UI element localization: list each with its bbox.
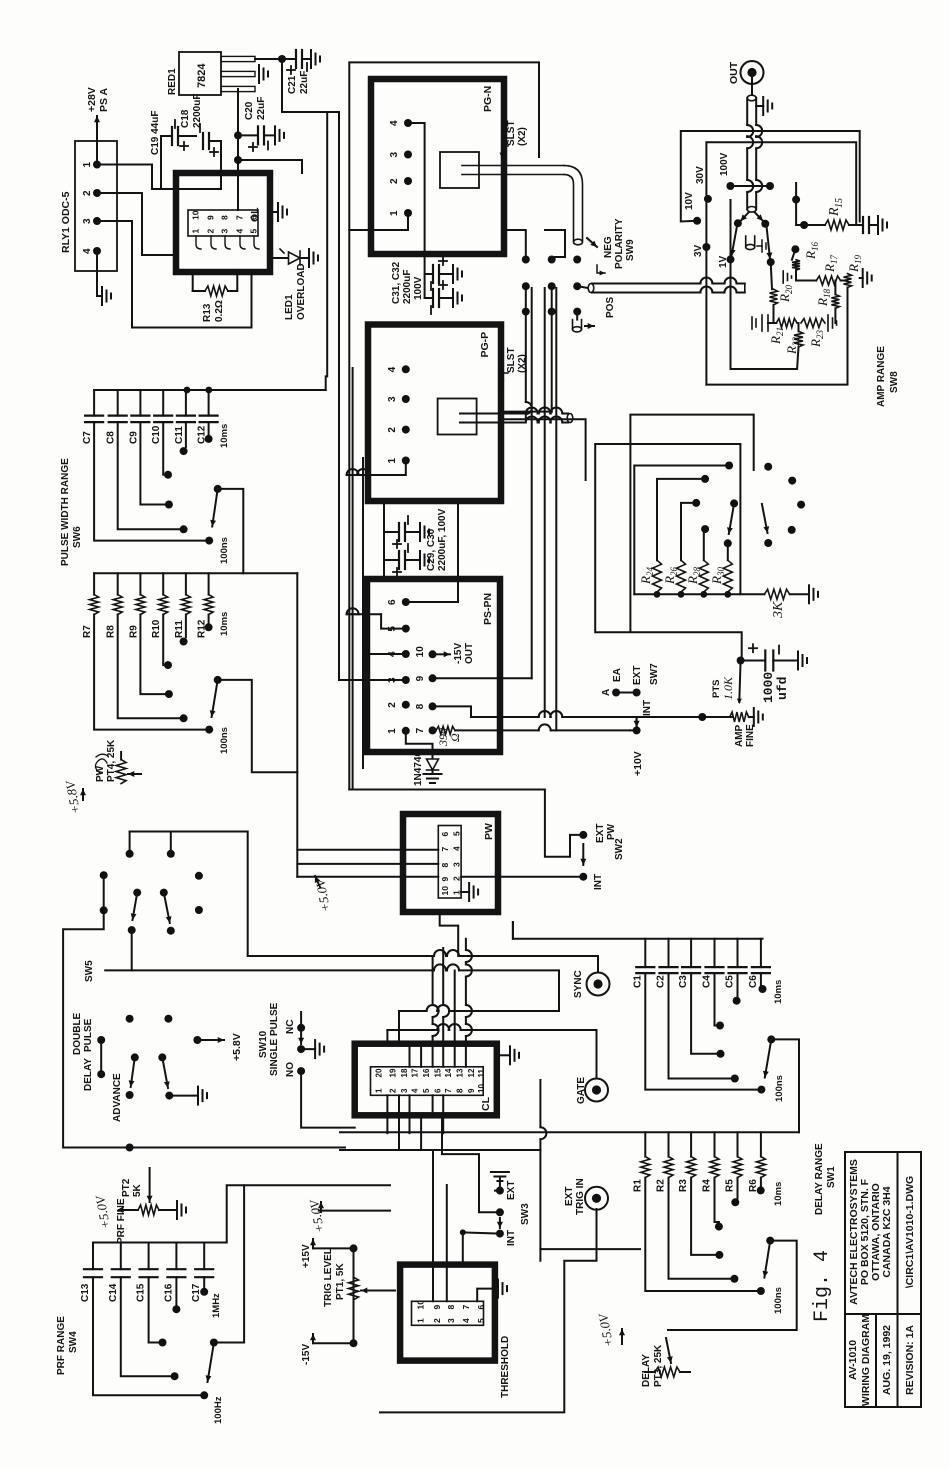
wire PS-PN pin4 riser: [363, 653, 406, 655]
wire CL pin stub left: [386, 1095, 388, 1115]
capacitor C21 22uF: [296, 50, 302, 68]
contact C8: [180, 525, 188, 533]
cable SW9 bar: [592, 278, 745, 284]
wire EXT TRIG route: [380, 1209, 597, 1412]
resistor R18: [831, 294, 839, 308]
wire C7 contact: [94, 422, 205, 541]
capacitor C16: [167, 1269, 185, 1277]
svg-text:+28V: +28V: [86, 87, 98, 112]
svg-text:1: 1: [387, 458, 398, 464]
resistor R1: [641, 1157, 650, 1178]
ground at C30: [420, 551, 429, 569]
contact arm C bank: [214, 485, 222, 493]
contact SW9: [548, 256, 556, 264]
capacitor C6: [752, 967, 770, 973]
svg-text:PW: PW: [483, 823, 495, 840]
wire SW5 link b: [130, 831, 171, 833]
wire 3V riser: [705, 142, 707, 384]
arrow -15V OUT: [436, 651, 450, 657]
pin 1 PS-PN: [402, 727, 410, 735]
resistor R26: [677, 560, 686, 592]
wire rail g2: [399, 1005, 559, 1011]
svg-text:\CIRC1\AV1010-1.DWG: \CIRC1\AV1010-1.DWG: [904, 1176, 916, 1288]
wire bus to C11: [185, 390, 187, 416]
contact arm SW1: [767, 1035, 775, 1043]
svg-text:AMP RANGE: AMP RANGE: [876, 346, 887, 407]
contact R24: [701, 475, 709, 483]
wire R8 contact: [118, 615, 180, 719]
svg-text:PT3, 25K: PT3, 25K: [653, 1344, 664, 1387]
wire C1 to contact: [645, 973, 757, 1090]
cable SW9 bar: [592, 287, 745, 293]
svg-text:AV-1010: AV-1010: [847, 1340, 859, 1380]
ground at OUT tube: [763, 97, 772, 115]
arrow PT2 +5V: [117, 1207, 123, 1213]
wire C12 contact: [208, 422, 210, 435]
junction R15: [800, 221, 808, 229]
pin 8 PS-PN: [429, 702, 437, 710]
minus of C29: [407, 516, 409, 524]
wire 100V pair: [734, 185, 766, 187]
cable end PG-P: [567, 414, 573, 423]
arrow SLST PG-P: [502, 373, 508, 385]
svg-text:THRESHOLD: THRESHOLD: [500, 1336, 511, 1398]
arrow +15V: [310, 1239, 316, 1248]
wire NC stub: [300, 1012, 302, 1028]
junction R30: [724, 591, 731, 598]
wire R28 to contact: [703, 529, 705, 560]
arrow wiper PT2: [147, 1168, 153, 1202]
svg-text:AMP: AMP: [734, 724, 745, 747]
wire OL to LED1: [270, 257, 288, 259]
svg-text:100ns: 100ns: [774, 1075, 785, 1102]
wire resistor bus: [634, 593, 764, 595]
svg-text:2200uF: 2200uF: [192, 94, 203, 128]
minus of C30: [407, 544, 409, 552]
ground at C32: [453, 289, 462, 307]
wire arm SW1 out: [771, 1039, 799, 1132]
wire R4 contact: [715, 1178, 719, 1223]
wire CL pin stub left: [398, 1095, 400, 1115]
wire PS-PN pin9: [433, 677, 532, 679]
connector EXT TRIG IN: [585, 1187, 608, 1210]
wire SW9 row1: [526, 286, 532, 419]
svg-text:2200uF, 100V: 2200uF, 100V: [437, 508, 448, 571]
ground at RLY1 pin4: [102, 287, 111, 305]
wire -15V: [313, 1342, 354, 1344]
wire SW6 to PW DIP: [297, 863, 438, 865]
svg-text:9: 9: [440, 877, 450, 882]
IC DIP-20 in CL: [371, 1067, 484, 1096]
svg-text:C16: C16: [163, 1283, 174, 1302]
svg-text:6: 6: [434, 1088, 443, 1093]
contact wiper a: [734, 219, 742, 227]
svg-text:9: 9: [432, 1305, 442, 1310]
wire C19 loop top: [161, 136, 170, 189]
pin 7 PS-PN: [429, 726, 437, 734]
svg-text:POS: POS: [605, 297, 616, 318]
svg-text:PT1, 5K: PT1, 5K: [335, 1263, 346, 1300]
wire rail thr branch: [540, 1248, 640, 1250]
title block frame: [845, 1152, 921, 1407]
wire C11 contact: [185, 422, 187, 447]
wire C10 contact: [162, 422, 164, 475]
arrow wiper a: [741, 212, 750, 221]
contact SW9: [548, 308, 556, 316]
contact 100ns SW1: [757, 1086, 765, 1094]
wire SW7 arm: [616, 692, 637, 694]
contact R5: [731, 1198, 739, 1206]
contact SW5: [133, 889, 141, 897]
wire bus to C4: [714, 939, 716, 967]
connector OUT: [741, 61, 764, 84]
arrow SW2 arm: [580, 844, 586, 865]
wire SW9 to PG-N: [504, 230, 526, 260]
pin lead of 7824: [221, 86, 255, 91]
wire CL pin: [398, 1011, 400, 1044]
ground at R23: [828, 315, 837, 331]
svg-text:8: 8: [456, 1088, 465, 1093]
wire EXT stub: [495, 1190, 500, 1192]
module OL box: [176, 173, 270, 272]
wire R6 contact: [760, 1178, 762, 1187]
wire rail A: [531, 288, 533, 678]
svg-text:SW3: SW3: [520, 1203, 531, 1225]
pin 4 PS-PN: [402, 650, 410, 658]
wire R7 contact: [94, 615, 205, 730]
svg-text:1: 1: [191, 229, 201, 234]
arrow arm C bank: [210, 489, 218, 527]
ground at R15: [878, 216, 887, 234]
pin lead of 7824: [221, 56, 255, 61]
svg-text:LED1: LED1: [284, 294, 295, 320]
wire outer loop 2 SW8: [630, 415, 753, 632]
contact C17: [200, 1288, 208, 1296]
wire RLY1 pin3 to R13 return: [97, 221, 252, 328]
contact 100ns R7 bank: [205, 726, 213, 734]
contact INT SW2: [579, 873, 587, 881]
cable SLST plug PG-P: [460, 417, 568, 423]
wire R15 a: [804, 224, 825, 226]
resistor R6: [756, 1157, 765, 1178]
capacitor C11: [177, 416, 195, 423]
wire SW6 rail: [296, 573, 298, 876]
svg-text:C21: C21: [287, 75, 298, 94]
pin 3 PG-N: [404, 151, 412, 159]
wire bus to C7: [93, 390, 95, 416]
contact SW8 pole2: [764, 463, 772, 471]
contact SW9: [522, 308, 530, 316]
title block divider h: [897, 1152, 899, 1407]
wire cap to ground: [869, 224, 877, 226]
svg-text:C19 44uF: C19 44uF: [150, 111, 161, 155]
resistor R12: [204, 595, 213, 615]
wire rail D: [500, 411, 552, 413]
pin 1 PG-N: [404, 209, 412, 217]
resistor R5: [733, 1157, 742, 1178]
svg-text:C13: C13: [80, 1283, 91, 1302]
svg-text:INT: INT: [506, 1230, 517, 1246]
svg-text:7: 7: [461, 1305, 471, 1310]
contact 100Hz SW4: [200, 1391, 208, 1399]
svg-text:EXT: EXT: [506, 1181, 517, 1200]
wire R7 bus: [94, 572, 297, 574]
capacitor C2: [660, 967, 678, 973]
contact 3V: [702, 243, 710, 251]
svg-text:PULSE: PULSE: [83, 1018, 94, 1052]
ground at PTS: [749, 716, 754, 718]
wire LED1 to ground: [300, 257, 308, 259]
resistor R13: [205, 286, 228, 296]
wire CL pin stub left: [432, 1095, 434, 1115]
wire bus to R3: [690, 1132, 692, 1156]
arrow SW5 lower a: [129, 1057, 135, 1087]
contact SW8 bank: [725, 462, 733, 470]
svg-text:R9: R9: [128, 625, 139, 638]
module PW box: [403, 814, 498, 912]
svg-text:C14: C14: [108, 1283, 119, 1302]
resistor R16: [792, 260, 800, 270]
wire PG-P to PS-PN pin6: [457, 501, 459, 602]
svg-text:POLARITY: POLARITY: [614, 218, 625, 269]
capacitor C15: [140, 1269, 158, 1277]
wire C bus SW1: [513, 922, 763, 939]
contact R2: [730, 1275, 738, 1283]
wire bus to C8: [117, 390, 119, 416]
potentiometer PT2 5K: [138, 1205, 159, 1215]
contact NC SW10: [297, 1024, 305, 1032]
svg-text:SINGLE PULSE: SINGLE PULSE: [269, 1002, 280, 1076]
svg-text:WIRING DIAGRAM: WIRING DIAGRAM: [860, 1314, 872, 1406]
wire bus to R6: [760, 1132, 762, 1156]
cable bend PG-N: [564, 175, 574, 242]
svg-text:4: 4: [387, 366, 398, 372]
cable second tube: [746, 236, 755, 250]
svg-text:22uF: 22uF: [299, 71, 310, 94]
wire R26 to contact: [681, 503, 692, 560]
svg-text:10ms: 10ms: [219, 424, 230, 448]
module THRESHOLD box: [400, 1265, 495, 1361]
wire C6 to contact: [760, 973, 762, 985]
wire R13 left: [192, 272, 194, 291]
svg-text:Ω: Ω: [448, 733, 462, 742]
wire to C30: [384, 559, 397, 561]
wire SW5 loop down: [130, 1147, 345, 1149]
wire bus to R12: [208, 573, 210, 594]
ground at PW DIP pin1: [469, 883, 478, 901]
wire R18 to R21 chain: [834, 308, 836, 323]
contact R9: [165, 690, 173, 698]
svg-text:SLST: SLST: [506, 120, 517, 146]
svg-text:1: 1: [82, 162, 93, 168]
contact R11: [180, 638, 188, 646]
contact C5: [733, 997, 741, 1005]
wire bus to R5: [737, 1132, 739, 1156]
wire pin4 to ground: [96, 251, 98, 296]
minus of 1000ufd: [778, 646, 780, 654]
pin stub OL DIP: [196, 236, 201, 249]
junction R24: [654, 591, 661, 598]
arrow SW3: [497, 1218, 503, 1228]
wire SW5 lower link: [100, 1040, 102, 1074]
svg-text:5: 5: [249, 229, 259, 234]
pin stub OL DIP: [240, 236, 245, 249]
svg-text:1: 1: [389, 210, 400, 216]
wire PS-PN pin3 riser: [339, 679, 406, 681]
resistor R21: [776, 319, 797, 328]
contact C2: [731, 1075, 739, 1083]
svg-text:7: 7: [444, 1088, 453, 1093]
resistor R30: [723, 560, 732, 592]
ground at LED1: [309, 249, 318, 267]
wire: [129, 832, 131, 854]
svg-text:5: 5: [452, 831, 462, 836]
cable POS: [573, 320, 582, 332]
contact arm R7 bank: [214, 676, 222, 684]
svg-text:8: 8: [446, 1305, 456, 1310]
wire R19 node: [843, 280, 848, 282]
wire bus to C10: [162, 390, 164, 416]
svg-text:5K: 5K: [132, 1183, 143, 1197]
svg-text:C2: C2: [656, 975, 667, 988]
wire SW9 row2: [551, 286, 553, 411]
svg-text:2: 2: [387, 427, 398, 433]
regulator RED1 7824 box: [179, 52, 221, 95]
arrow arm R7 bank: [210, 680, 218, 717]
resistor R3: [687, 1157, 696, 1178]
ground at 1000ufd: [798, 652, 807, 670]
wire bus to R1: [644, 1132, 646, 1156]
wire 1V to R22: [731, 200, 799, 369]
svg-text:3: 3: [452, 862, 462, 867]
wire pin7: [433, 729, 437, 731]
minus of C32: [430, 306, 432, 314]
svg-text:100Hz: 100Hz: [213, 1396, 224, 1424]
svg-text:-15V: -15V: [301, 1344, 312, 1365]
arrow +5.0V PT1: [318, 1202, 324, 1212]
pin 4 PG-N: [404, 119, 412, 127]
arrow +5.8V PT4: [80, 789, 86, 800]
contact SW9: [522, 256, 530, 264]
svg-text:TRIG IN: TRIG IN: [575, 1178, 586, 1215]
contact R12: [205, 623, 213, 631]
potentiometer PT4 25K: [116, 760, 126, 784]
contact SW5: [195, 872, 203, 880]
wire bus to R8: [117, 573, 119, 594]
wire to C32: [425, 297, 433, 299]
wire CL ground: [497, 1054, 509, 1056]
wire 7824 out to C21: [255, 58, 296, 60]
wire to 1000ufd: [741, 660, 766, 662]
cap ground at R21: [752, 315, 768, 331]
arrow +5.0V: [315, 876, 320, 887]
svg-text:+5.8V: +5.8V: [231, 1033, 243, 1061]
potentiometer PT1 5K: [349, 1277, 359, 1300]
junction R26: [678, 591, 685, 598]
wire +10V to PTS: [637, 716, 732, 718]
svg-text:14: 14: [444, 1068, 453, 1077]
svg-text:C31, C32: C31, C32: [391, 261, 402, 304]
resistor R11: [181, 595, 190, 615]
svg-text:3: 3: [389, 152, 400, 158]
svg-text:2: 2: [388, 1088, 397, 1093]
contact SW5 lower: [97, 1036, 105, 1044]
wire to R20: [771, 262, 772, 289]
wire R3 contact: [691, 1178, 715, 1255]
capacitor C10: [154, 416, 172, 423]
resistor R10: [159, 595, 168, 615]
svg-text:10: 10: [440, 886, 450, 896]
pin 1 PG-P: [402, 457, 410, 465]
wire CL pin: [386, 1030, 388, 1044]
zener diode 1N4740: [427, 759, 439, 770]
wire R13 bottom: [228, 272, 237, 291]
wire OL ground: [270, 211, 277, 213]
junction PTS: [698, 713, 706, 721]
wire CL row c: [454, 971, 456, 1044]
wire bus to R9: [139, 573, 141, 594]
contact A SW7: [612, 689, 620, 697]
wire PG-P to C29 C30: [383, 501, 385, 575]
cable SW9 bar end cap: [744, 284, 746, 293]
svg-text:AUG. 19, 1992: AUG. 19, 1992: [881, 1325, 893, 1395]
wire bus to R11: [185, 573, 187, 594]
svg-text:DELAY: DELAY: [641, 1354, 652, 1387]
svg-text:8: 8: [220, 215, 230, 220]
svg-text:R8: R8: [106, 625, 117, 638]
wire to R15: [796, 183, 804, 225]
wire PG-N pin4 to C31 C32: [408, 123, 425, 298]
arrow arm SW4: [206, 1343, 214, 1383]
wire C20 to ground: [264, 134, 274, 136]
wire PW to INT SW2: [461, 876, 579, 878]
svg-text:SW1: SW1: [826, 1166, 837, 1188]
pin stub OL DIP: [211, 236, 216, 249]
junction -15V: [350, 1339, 358, 1347]
connector GATE: [585, 1079, 608, 1102]
svg-text:PW: PW: [95, 765, 106, 782]
wire arm R7 out: [218, 680, 298, 772]
wire rail gate: [387, 1024, 596, 1030]
svg-text:PT2: PT2: [121, 1178, 132, 1197]
contact 10V: [693, 217, 701, 225]
junction C20: [234, 131, 242, 139]
pin 9 PS-PN: [429, 674, 437, 682]
svg-text:R7: R7: [82, 625, 93, 638]
contact SW8 pole2: [764, 539, 772, 547]
arrow NEG POLARITY: [597, 265, 605, 273]
pin 10 PS-PN: [429, 650, 437, 658]
contact SW5 lower: [165, 1092, 173, 1100]
capacitor C5: [729, 967, 747, 973]
svg-text:8: 8: [440, 863, 450, 868]
contact EXT SW3: [496, 1187, 504, 1195]
contact SW5 lower: [126, 1091, 134, 1099]
wire C30 to ground: [405, 559, 419, 561]
wire R11 contact: [185, 615, 187, 638]
wire CL pin stub: [409, 1044, 411, 1067]
ground at SW5: [198, 1087, 207, 1105]
arrow +5.0V THR: [619, 1329, 625, 1344]
contact C6: [759, 985, 767, 993]
svg-text:11: 11: [477, 1068, 486, 1077]
svg-text:9: 9: [415, 675, 426, 681]
plus of C19: [180, 142, 188, 150]
svg-text:2200uF: 2200uF: [402, 270, 413, 304]
contact SW5: [128, 926, 136, 934]
arrow SLST to SW9: [587, 238, 597, 247]
svg-text:NEG: NEG: [603, 236, 614, 258]
